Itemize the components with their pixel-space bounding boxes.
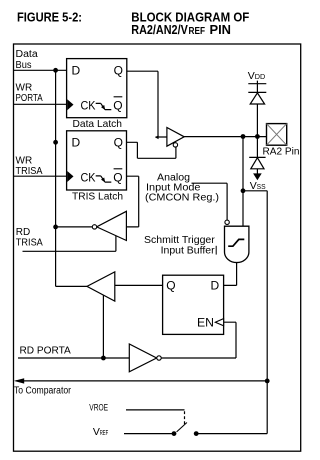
wire VREF to switch	[124, 433, 174, 435]
svg-text:D: D	[72, 63, 81, 77]
arrowhead to comparator	[14, 378, 24, 383]
svg-text:Schmitt Trigger: Schmitt Trigger	[144, 235, 215, 246]
ground VSS	[250, 169, 266, 192]
svg-text:D: D	[72, 136, 81, 150]
wire WR PORTA to CK	[14, 103, 67, 105]
svg-text:PIN: PIN	[210, 22, 232, 37]
svg-text:RA2/AN2/V: RA2/AN2/V	[131, 22, 188, 37]
wire VROE control (dashed to switch)	[126, 409, 185, 411]
diode D1 to VDD	[248, 92, 266, 104]
svg-text:CK: CK	[81, 172, 96, 184]
svg-text:Q: Q	[114, 136, 123, 150]
svg-text:RD PORTA: RD PORTA	[20, 345, 72, 356]
wire TRIS latch Q to driver enable	[127, 142, 176, 158]
svg-text:Q: Q	[113, 99, 122, 113]
svg-text:Data Latch: Data Latch	[73, 118, 123, 130]
svg-text:REF: REF	[189, 26, 206, 37]
svg-text:D: D	[211, 279, 220, 293]
wire RD PORTA	[18, 357, 129, 359]
svg-text:PORTA: PORTA	[16, 93, 43, 104]
wire analog input mode to gate bubble	[192, 183, 228, 220]
tri-state driver U2	[167, 128, 184, 148]
wire EN input from RD PORTA buffer	[161, 322, 236, 358]
comparator buffer U5	[87, 272, 115, 301]
RA2 pin	[263, 124, 300, 158]
node WR TRISA label	[16, 155, 43, 176]
node junction dots	[53, 68, 269, 383]
figure frame	[14, 44, 301, 451]
node RD TRISA label	[16, 227, 43, 249]
data latch	[67, 59, 127, 130]
schmitt trigger input buffer U4	[225, 220, 249, 262]
svg-text:TRISA: TRISA	[16, 166, 43, 177]
wire pin line down to schmitt gate	[242, 137, 244, 227]
svg-text:WR: WR	[16, 82, 33, 93]
node VREF label	[93, 426, 109, 438]
wire buffer output to data bus	[56, 285, 87, 287]
EN latch	[163, 275, 224, 334]
wire data latch Q to tri-state driver	[127, 71, 167, 137]
wire tap to comparator line	[243, 191, 267, 434]
svg-text:EN: EN	[197, 315, 214, 329]
wire switch to comparator line	[196, 433, 267, 435]
wire data bus to D input	[14, 69, 67, 71]
node Schmitt Trigger label	[144, 235, 216, 257]
node Analog Input Mode label	[145, 172, 219, 203]
svg-text:CK: CK	[81, 100, 96, 112]
wire EN latch Q to comparator buffer	[115, 284, 163, 286]
power VDD	[248, 70, 266, 92]
wire D1 to pin line	[256, 104, 258, 137]
wire WR TRISA to CK	[14, 175, 67, 177]
node WR PORTA label	[16, 82, 43, 104]
svg-text:FIGURE 5-2:: FIGURE 5-2:	[17, 10, 82, 25]
svg-text:RD: RD	[16, 227, 30, 238]
wire RD TRISA to inverter enable	[23, 236, 116, 252]
title FIGURE 5-2	[17, 10, 249, 37]
svg-text:(CMCON Reg.): (CMCON Reg.)	[145, 193, 219, 204]
svg-text:V: V	[248, 70, 255, 82]
RD PORTA buffer U6	[129, 344, 161, 372]
svg-text:RA2 Pin: RA2 Pin	[263, 147, 300, 158]
junction arrow at driver input	[155, 135, 159, 139]
svg-text:SS: SS	[257, 182, 266, 191]
wire TRIS latch Qbar to RD TRISA inverter input	[126, 176, 138, 227]
svg-text:Bus: Bus	[16, 60, 32, 71]
svg-text:DD: DD	[255, 72, 266, 81]
svg-text:REF: REF	[100, 428, 109, 437]
svg-text:Q: Q	[114, 63, 123, 77]
svg-text:Input Buffer: Input Buffer	[161, 246, 216, 257]
svg-text:TRISA: TRISA	[16, 238, 43, 249]
svg-text:TRIS Latch: TRIS Latch	[72, 191, 123, 203]
node Data Bus label	[16, 49, 39, 71]
svg-text:To Comparator: To Comparator	[14, 386, 72, 397]
switch S1	[172, 423, 199, 437]
wire schmitt output to EN latch D	[224, 263, 237, 286]
wire driver output to RA2 pin	[184, 136, 266, 138]
svg-text:VROE: VROE	[89, 403, 108, 414]
svg-text:Q: Q	[113, 171, 122, 185]
TRIS latch	[67, 131, 127, 203]
svg-text:Q: Q	[166, 279, 175, 293]
svg-text:WR: WR	[16, 155, 33, 166]
diode D2 to VSS	[249, 137, 265, 169]
wire buffer enable to RD PORTA	[102, 295, 104, 358]
wire inverter output to data bus	[56, 226, 93, 228]
RD TRISA inverter U3	[92, 211, 126, 240]
svg-text:Data: Data	[16, 49, 39, 60]
wire left data bus vertical	[55, 70, 57, 286]
wire to comparator	[16, 380, 267, 382]
